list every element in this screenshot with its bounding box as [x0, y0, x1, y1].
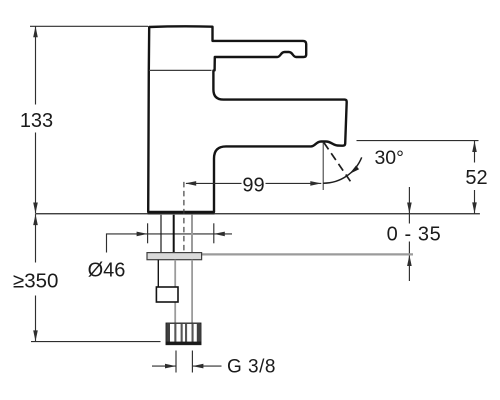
knurled nut body [166, 323, 201, 344]
wire bottom extension line of ge350 [31, 341, 161, 343]
node 133 arrow up [33, 26, 38, 37]
wire diameter 46 leader and dimension line [107, 234, 233, 253]
wire joint line between handle cap and body [149, 69, 212, 71]
svg-text:30°: 30° [374, 147, 404, 169]
node 52 arrow down [472, 202, 477, 213]
wire dashed centre line of body [183, 182, 185, 252]
wire deck mounting surface line [36, 213, 480, 215]
wire G3/8 left arrow line [152, 365, 176, 367]
wire dashed water stream line 30deg [324, 143, 351, 182]
node 52 arrow up [472, 141, 477, 152]
node 99 arrow left [185, 181, 196, 186]
node 133 dimension line upper segment [35, 26, 37, 104]
wire threaded stud below flange [157, 260, 159, 287]
svg-text:52: 52 [465, 167, 487, 189]
wire spout outlet extension line (52 top) [357, 140, 479, 142]
wire shank grey hose line upper [191, 215, 193, 253]
node G3/8 right tick [191, 351, 193, 373]
knurled nut knurl line 3 [185, 324, 187, 344]
knurled nut knurl line 1 [174, 324, 176, 344]
wire top extension line of 133 [30, 25, 148, 27]
svg-text:99: 99 [242, 175, 264, 197]
node 133 dimension line lower segment [35, 133, 37, 214]
node angle arc arrowhead [349, 166, 359, 175]
wire vertical reference line at spout outlet [322, 143, 324, 191]
node diameter 46 arrow right [137, 232, 148, 237]
node 99 arrow right [310, 181, 321, 186]
node ge350 dimension line upper segment [35, 214, 37, 262]
node diameter 46 arrow left [214, 232, 225, 237]
wire 99 dimension line left segment [186, 182, 242, 184]
svg-text:G 3/8: G 3/8 [227, 356, 276, 377]
node ge350 arrow down [33, 330, 38, 341]
node ge350 arrow up [33, 214, 38, 225]
wire grey hose left edge [174, 260, 176, 323]
wire 99 dimension line right segment [266, 182, 322, 184]
node ge350 dimension line lower segment [35, 296, 37, 342]
wire G3/8 right arrow line [192, 365, 221, 367]
check valve box [156, 287, 178, 302]
knurled nut knurl line 2 [181, 324, 183, 344]
svg-text:≥350: ≥350 [13, 270, 58, 293]
node 0-35 arrow up [407, 255, 412, 266]
node 0-35 arrow down [407, 203, 412, 214]
node diameter 46 right tick [213, 223, 215, 243]
faucet outline: handle cap, lever, body column and spout [148, 26, 347, 212]
flange escutcheon [147, 253, 202, 260]
svg-text:Ø46: Ø46 [88, 259, 126, 281]
wire grey maximum deck thickness line [202, 253, 413, 255]
wire angle arc [323, 157, 361, 183]
knurled nut left dark band [167, 324, 170, 344]
knurled nut bottom thick edge [166, 342, 201, 345]
wire grey hose right edge [191, 260, 193, 323]
node 133 arrow down [33, 203, 38, 214]
node 0-35 upper stem [408, 187, 410, 224]
knurled nut right dark band [197, 324, 200, 344]
node G3/8 left tick [175, 351, 177, 373]
wire body bottom thick line [148, 212, 215, 215]
wire shank left line [160, 215, 162, 253]
knurled nut knurl line 4 [192, 324, 194, 344]
node 0-35 lower stem [408, 242, 410, 282]
wire shank thick stud line [173, 215, 175, 253]
svg-text:133: 133 [20, 110, 53, 132]
svg-text:0 - 35: 0 - 35 [387, 223, 442, 245]
node diameter 46 left tick [147, 223, 149, 243]
